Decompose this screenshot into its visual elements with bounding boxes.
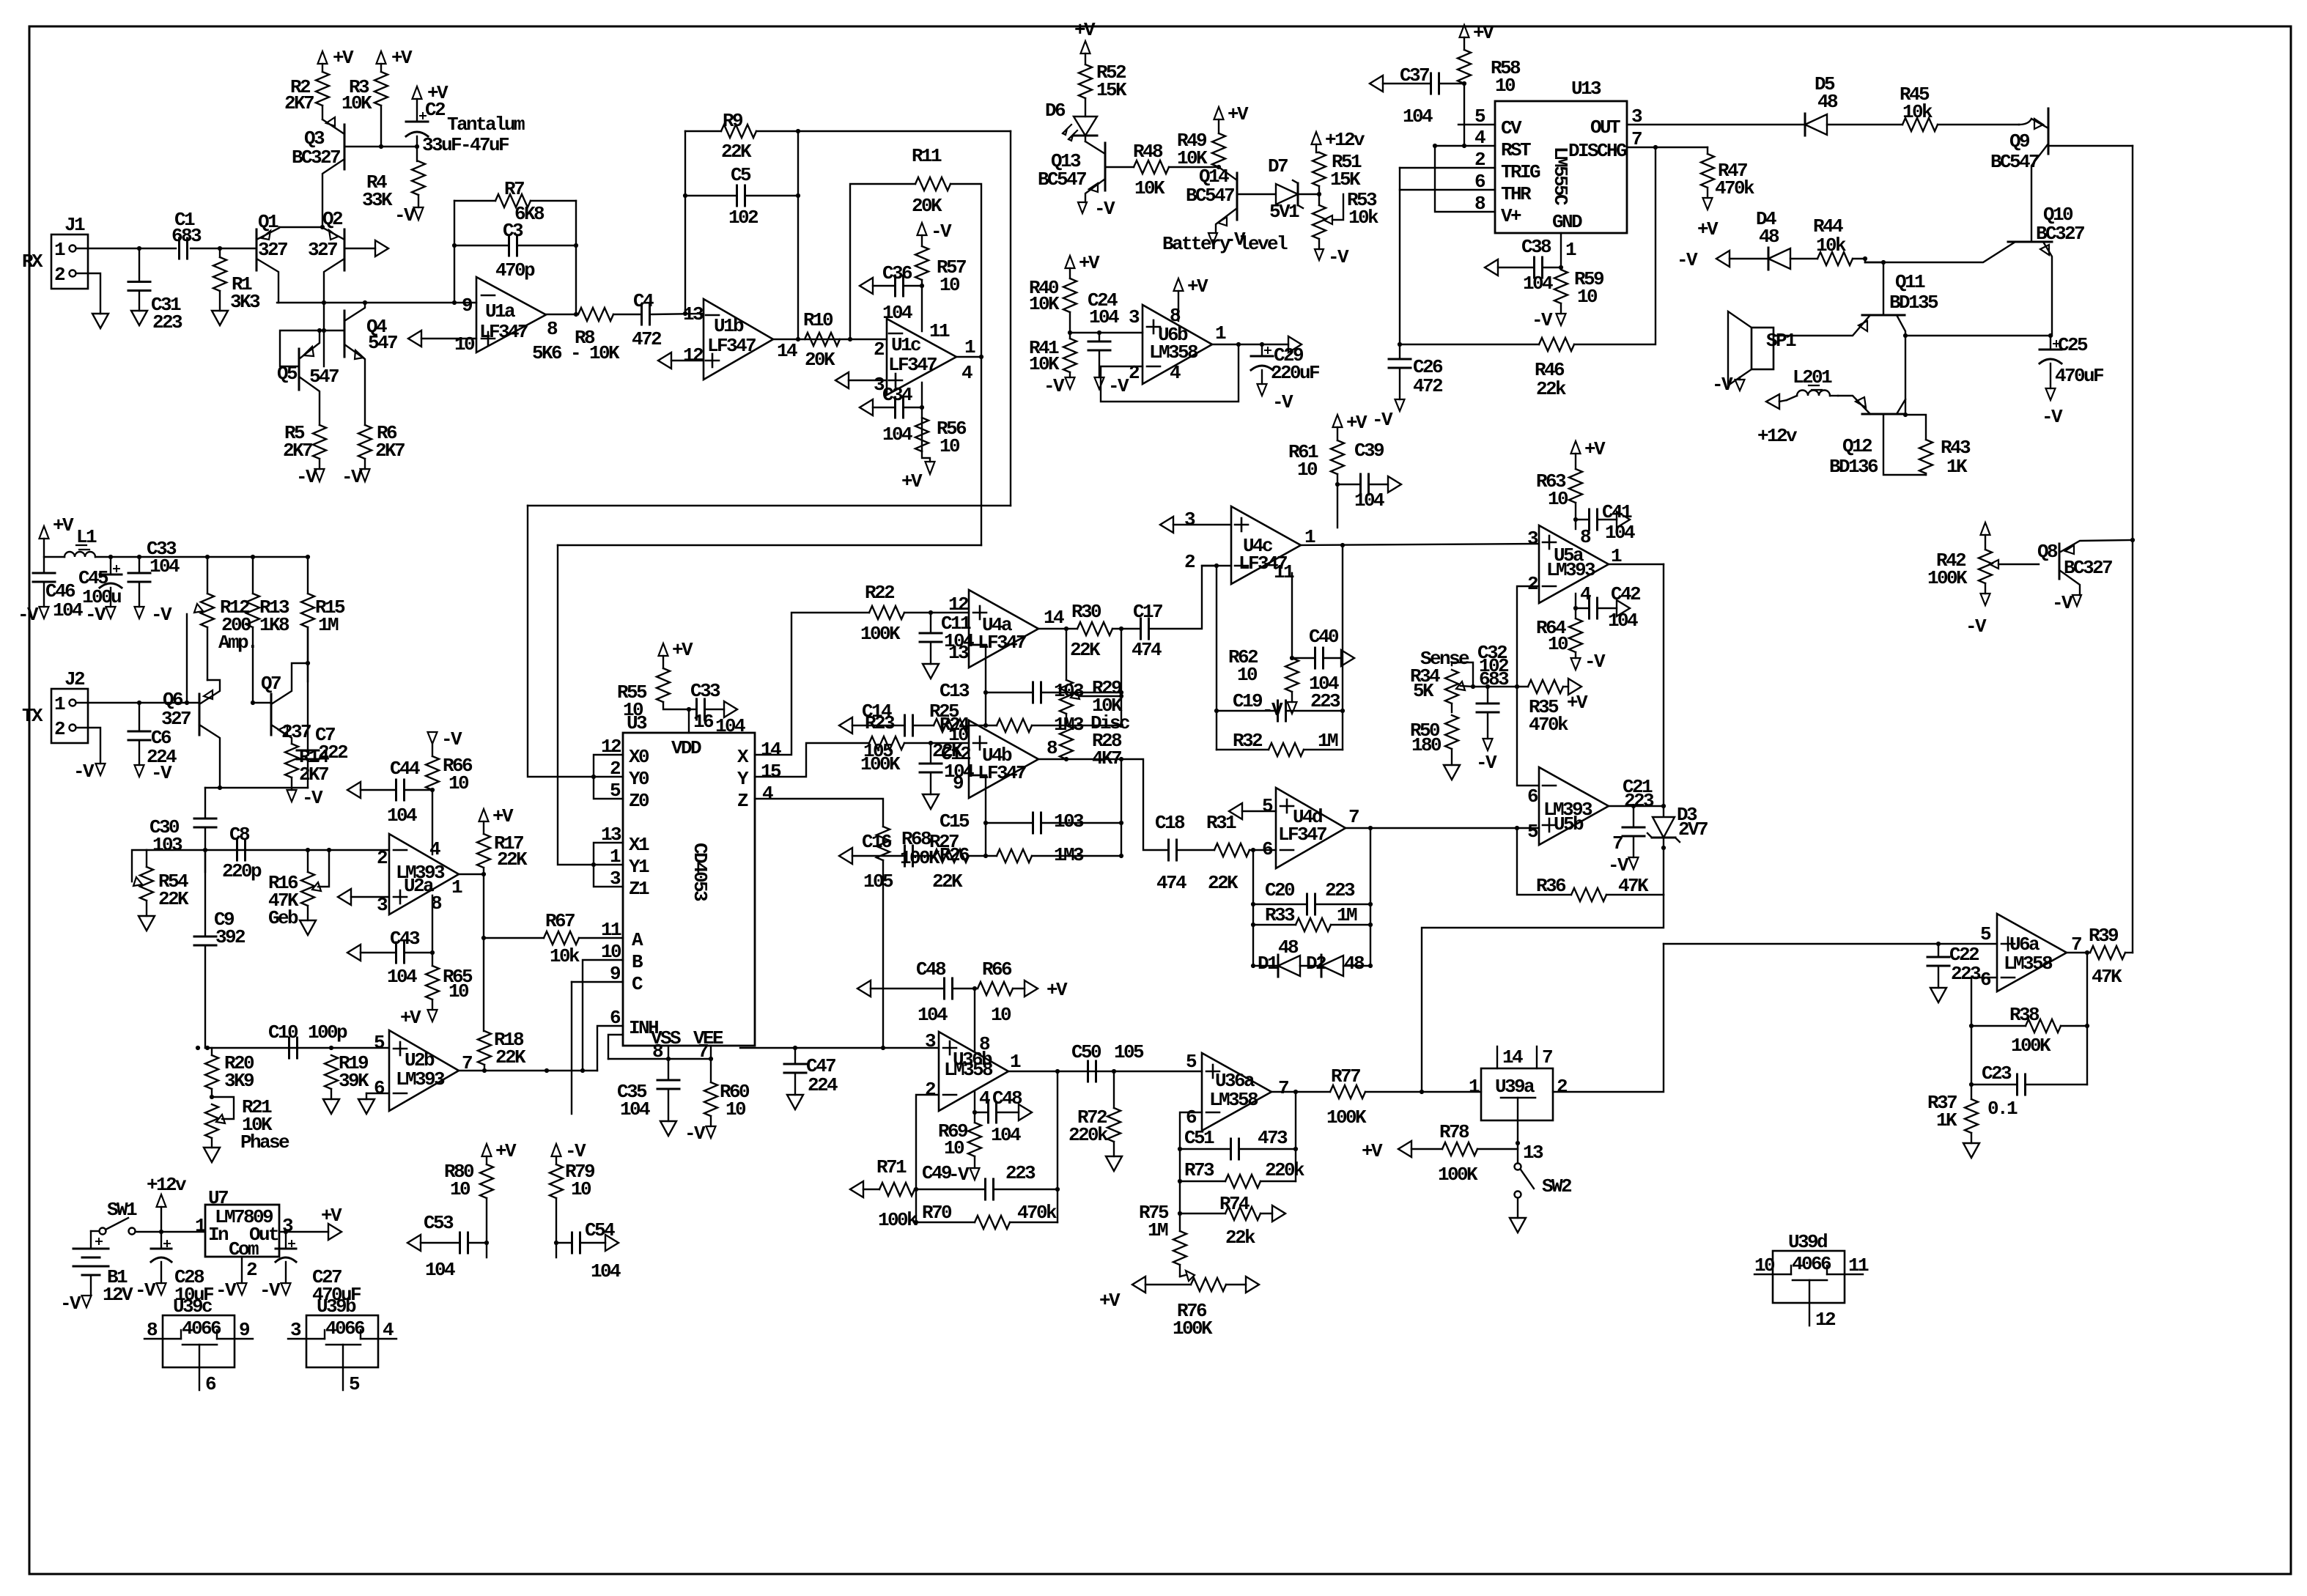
resistor R74	[1180, 1213, 1225, 1214]
svg-text:10: 10	[726, 1098, 746, 1120]
resistor R43	[1905, 415, 1926, 440]
wire U2b out	[459, 1070, 597, 1071]
zener diode D3 (2V7)	[1653, 817, 1675, 838]
capacitor C51 feedback	[1180, 1148, 1229, 1150]
op-amp U2a (LM393)	[389, 834, 459, 915]
-V power	[706, 1126, 716, 1138]
capacitor C23 feedback	[1971, 1084, 2015, 1085]
svg-text:100K: 100K	[860, 753, 901, 775]
wire down to Q12	[1905, 336, 1906, 415]
ground	[323, 1099, 339, 1114]
svg-text:+V: +V	[672, 639, 693, 661]
svg-text:+V: +V	[1079, 252, 1100, 274]
wire J2 pin2 gnd	[76, 728, 100, 764]
svg-text:10k: 10k	[550, 945, 580, 967]
wire U6b out	[1212, 344, 1288, 345]
wire TRIG/THR vertical to C26	[1399, 168, 1400, 344]
pins 14 7 stubs	[1496, 1046, 1498, 1068]
-V power	[1066, 377, 1075, 389]
svg-text:104: 104	[425, 1259, 455, 1281]
svg-text:104: 104	[620, 1098, 650, 1120]
svg-text:OUT: OUT	[1590, 117, 1620, 138]
svg-text:R67: R67	[545, 910, 575, 932]
svg-text:R39: R39	[2089, 925, 2119, 947]
svg-text:22k: 22k	[1536, 378, 1566, 400]
svg-text:100K: 100K	[860, 623, 901, 645]
resistor R35	[1528, 680, 1563, 693]
-V power	[281, 1283, 291, 1295]
ground	[139, 916, 155, 931]
svg-text:104: 104	[882, 302, 912, 324]
svg-text:220uF: 220uF	[1271, 362, 1320, 384]
svg-text:C48: C48	[992, 1087, 1022, 1109]
resistor R77	[1330, 1085, 1365, 1098]
svg-text:11: 11	[929, 320, 950, 342]
wire DISCHG pin7	[1627, 147, 1708, 148]
svg-text:100K: 100K	[1927, 567, 1968, 589]
svg-text:547: 547	[368, 332, 397, 354]
resistor R45	[1902, 118, 1938, 131]
svg-text:4: 4	[429, 838, 440, 860]
node R13 to Q7 base	[251, 701, 255, 705]
svg-text:4066: 4066	[325, 1318, 365, 1340]
resistor R52	[1085, 53, 1086, 64]
resistor R40	[1069, 268, 1071, 278]
svg-text:48: 48	[1344, 953, 1365, 975]
wire U39a out	[1553, 944, 1664, 1092]
svg-text:+12v: +12v	[1325, 129, 1365, 151]
svg-text:104: 104	[882, 424, 912, 446]
regulator U7 LM7809 box	[205, 1205, 279, 1257]
wire R22 to pin12	[904, 612, 969, 613]
svg-text:+V: +V	[1567, 692, 1588, 714]
U1c pin4 lower rail	[921, 383, 923, 451]
svg-text:L201: L201	[1793, 366, 1832, 388]
svg-text:10K: 10K	[1134, 177, 1165, 199]
svg-text:+V: +V	[1074, 19, 1096, 41]
pin16 VDD	[688, 709, 690, 733]
svg-text:12V: 12V	[103, 1284, 133, 1306]
svg-text:104: 104	[1608, 610, 1638, 632]
wire pin6 loop	[1971, 978, 1997, 1085]
wire top rail ext	[207, 556, 308, 558]
svg-text:3: 3	[1527, 528, 1538, 550]
svg-text:220p: 220p	[222, 860, 262, 882]
resistor R24 feedback	[986, 725, 997, 726]
svg-text:15K: 15K	[1330, 169, 1361, 191]
svg-text:2: 2	[1129, 362, 1140, 384]
svg-text:327: 327	[258, 239, 287, 261]
wire GND pin1	[1560, 233, 1562, 267]
resistor R79	[555, 1156, 557, 1164]
wire U6a out	[2067, 952, 2090, 953]
svg-text:474: 474	[1156, 872, 1186, 894]
svg-text:4K7: 4K7	[1092, 747, 1121, 769]
resistor R32 feedback	[1217, 749, 1269, 750]
wire INH route	[597, 1026, 623, 1071]
op-amp U1b (LF347)	[704, 299, 773, 380]
input arrow pin3	[338, 889, 351, 905]
-V power	[82, 1296, 92, 1307]
svg-text:3K9: 3K9	[224, 1070, 254, 1092]
svg-text:14: 14	[777, 340, 797, 362]
svg-text:7: 7	[1348, 806, 1359, 828]
resistor R50 (180)	[1445, 715, 1458, 749]
-V power	[106, 607, 116, 618]
wire U5b out	[1609, 805, 1664, 807]
svg-text:22K: 22K	[497, 849, 528, 871]
capacitor C49	[916, 1189, 983, 1190]
capacitor C4	[613, 314, 640, 315]
capacitor C21	[1633, 806, 1634, 827]
wire U36a out	[1271, 1091, 1330, 1093]
svg-text:470k: 470k	[1017, 1202, 1057, 1224]
svg-text:224: 224	[808, 1074, 838, 1096]
svg-text:20K: 20K	[912, 195, 942, 217]
capacitor C35	[668, 1059, 669, 1080]
pot R29 (10K) Disc	[1066, 629, 1067, 680]
svg-text:-V: -V	[1476, 752, 1497, 774]
svg-text:2V7: 2V7	[1678, 819, 1708, 841]
capacitor C33b	[689, 709, 695, 710]
svg-text:473: 473	[1258, 1127, 1288, 1149]
svg-text:6: 6	[1527, 786, 1538, 808]
svg-text:C17: C17	[1133, 601, 1162, 623]
svg-text:104: 104	[387, 966, 417, 988]
-V power	[1483, 739, 1493, 750]
svg-text:12: 12	[948, 594, 969, 616]
svg-text:104: 104	[991, 1124, 1021, 1146]
+12v power	[157, 1194, 166, 1207]
svg-text:BC547: BC547	[1186, 185, 1234, 207]
ground	[204, 1148, 220, 1162]
svg-text:2: 2	[1184, 551, 1195, 573]
input arrow pin3 U4c	[1160, 517, 1173, 533]
svg-text:103: 103	[1054, 810, 1084, 832]
input arrow pin3	[835, 372, 849, 388]
resistor R41	[1063, 339, 1077, 372]
svg-text:LM393: LM393	[1546, 559, 1595, 581]
svg-text:48: 48	[1759, 226, 1779, 248]
op-amp U6a (LM358)	[1997, 914, 2067, 991]
-V power	[96, 764, 106, 775]
resistor R17	[483, 821, 484, 834]
svg-text:103: 103	[152, 834, 182, 856]
wire C48 node down to pin8	[974, 989, 975, 1052]
svg-text:C16: C16	[862, 831, 892, 853]
wire pin4 down C48b	[974, 1092, 975, 1123]
svg-text:105: 105	[863, 871, 893, 893]
capacitor C17	[1140, 618, 1142, 639]
svg-text:BC327: BC327	[292, 147, 340, 169]
svg-text:6: 6	[1186, 1107, 1197, 1128]
svg-text:Phase: Phase	[240, 1131, 289, 1153]
svg-text:14: 14	[1044, 607, 1064, 629]
resistor R66	[432, 744, 433, 756]
wire Out	[279, 1231, 328, 1233]
svg-text:5: 5	[1527, 821, 1538, 843]
ground	[131, 311, 147, 325]
svg-text:+V: +V	[400, 1007, 421, 1029]
+V power R63	[1571, 441, 1581, 454]
svg-text:THR: THR	[1501, 183, 1532, 205]
svg-text:R9: R9	[723, 110, 743, 132]
svg-text:8: 8	[1047, 737, 1057, 759]
capacitor C24	[1099, 333, 1100, 341]
svg-text:-V: -V	[215, 1279, 237, 1301]
svg-text:C10: C10	[268, 1021, 298, 1043]
resistor R65	[432, 895, 433, 966]
capacitor C15 feedback	[986, 822, 1031, 824]
svg-text:U39d: U39d	[1788, 1231, 1827, 1253]
svg-text:10K: 10K	[1029, 293, 1060, 315]
ground	[1930, 988, 1946, 1002]
resistor R30	[1077, 622, 1112, 635]
svg-text:C13: C13	[940, 680, 970, 702]
capacitor C46	[43, 557, 45, 573]
svg-text:D2: D2	[1306, 953, 1326, 975]
svg-text:223: 223	[1005, 1162, 1036, 1184]
diode D4 (48)	[1768, 248, 1790, 269]
wire R67 node	[483, 874, 484, 938]
wire long vertical to Y1	[558, 545, 594, 865]
svg-text:R36: R36	[1536, 875, 1566, 897]
resistor R3	[380, 64, 382, 72]
wire Com pin	[241, 1257, 243, 1283]
capacitor C20 feedback	[1253, 904, 1305, 905]
transistor Q14 (BC547)	[1236, 173, 1239, 220]
resistor R56	[915, 418, 929, 451]
wire Q13 base	[1105, 166, 1134, 168]
svg-text:LF347: LF347	[888, 354, 937, 376]
op-amp U2b (LM393)	[389, 1030, 459, 1111]
svg-text:9: 9	[239, 1319, 250, 1341]
+V power for R2	[318, 51, 328, 64]
capacitor C9	[204, 850, 206, 936]
svg-text:5: 5	[349, 1373, 360, 1395]
resistor R28 (4K7)	[1060, 725, 1073, 759]
ground	[660, 1121, 676, 1136]
svg-text:10: 10	[1754, 1255, 1775, 1277]
capacitor C18	[1121, 759, 1167, 850]
-V power	[135, 765, 144, 777]
+V power R40	[1066, 256, 1075, 268]
svg-text:10: 10	[1297, 459, 1318, 481]
svg-text:1: 1	[54, 239, 65, 261]
capacitor C12	[930, 743, 931, 764]
svg-text:104: 104	[715, 715, 745, 737]
svg-text:4066: 4066	[1792, 1253, 1831, 1275]
svg-text:3K3: 3K3	[230, 291, 260, 313]
wire into pin9 node	[969, 855, 986, 857]
U1b output node vertical	[797, 131, 799, 339]
svg-text:4: 4	[1170, 362, 1181, 384]
resistor R80	[486, 1156, 487, 1164]
svg-text:C19: C19	[1233, 690, 1263, 712]
arrow out	[375, 240, 388, 256]
svg-text:BD136: BD136	[1829, 456, 1878, 478]
+V power R52	[1081, 41, 1090, 53]
svg-text:Amp.: Amp.	[218, 632, 256, 654]
svg-text:BC327: BC327	[2036, 223, 2084, 245]
-V power	[1078, 202, 1087, 213]
svg-text:C44: C44	[390, 758, 420, 780]
svg-text:8: 8	[1580, 526, 1591, 548]
wire R15 to Q7 collector	[307, 627, 309, 663]
wire pin6 loop	[1180, 1112, 1202, 1213]
zener diode D7 (5V1)	[1276, 184, 1298, 204]
svg-text:10: 10	[991, 1004, 1011, 1026]
resistor R68	[876, 827, 890, 860]
svg-text:104: 104	[1523, 273, 1553, 295]
svg-text:1: 1	[1010, 1051, 1021, 1073]
svg-text:8: 8	[547, 318, 558, 340]
resistor R10	[805, 333, 840, 346]
wire collector rail to U1a pin9	[277, 302, 476, 303]
svg-text:3: 3	[925, 1030, 936, 1052]
transistor Q11 (BD135)	[1862, 314, 1905, 317]
svg-text:VDD: VDD	[671, 737, 701, 759]
svg-text:10: 10	[449, 772, 469, 794]
svg-text:R10: R10	[803, 309, 833, 331]
svg-text:+V: +V	[492, 805, 514, 827]
svg-text:5: 5	[1186, 1051, 1197, 1073]
svg-text:392: 392	[215, 926, 246, 948]
capacitor C16 + resistor R27 input	[839, 848, 852, 864]
svg-text:-V: -V	[1272, 391, 1293, 413]
switch SW2	[1517, 1143, 1518, 1162]
wire long horizontal 2	[558, 544, 981, 546]
-V power	[1315, 249, 1324, 260]
resistor R47	[1707, 147, 1708, 154]
svg-text:180: 180	[1411, 734, 1442, 756]
wire U2a col to U2b out	[483, 938, 484, 1031]
capacitor C28 (10uF)	[160, 1232, 162, 1249]
capacitor C38	[1485, 259, 1498, 276]
wire bottom rail	[220, 787, 308, 788]
svg-text:4066: 4066	[182, 1318, 221, 1340]
svg-text:X1: X1	[629, 834, 649, 856]
wire Y0 pin	[594, 776, 623, 777]
svg-text:222: 222	[318, 742, 348, 764]
wire J1 pin2 to ground	[76, 273, 100, 314]
svg-text:U39b: U39b	[317, 1296, 356, 1318]
svg-text:10k: 10k	[1348, 207, 1378, 229]
svg-text:LM358: LM358	[944, 1059, 993, 1081]
capacitor C31	[139, 248, 140, 281]
capacitor C43	[347, 945, 361, 961]
svg-text:104: 104	[918, 1004, 948, 1026]
svg-text:+V: +V	[321, 1205, 342, 1227]
svg-text:7: 7	[1612, 832, 1623, 854]
pin7 VEE stub	[710, 1046, 712, 1059]
svg-text:100p: 100p	[308, 1021, 347, 1043]
svg-text:5V1: 5V1	[1269, 201, 1299, 223]
svg-text:-V: -V	[931, 221, 952, 243]
svg-text:47K: 47K	[2092, 966, 2122, 988]
svg-text:1: 1	[451, 876, 462, 898]
resistor R70 row	[916, 1222, 975, 1223]
svg-text:22K: 22K	[495, 1046, 526, 1068]
svg-text:-V: -V	[948, 1164, 970, 1186]
resistor R9	[685, 130, 721, 132]
svg-text:2K7: 2K7	[375, 440, 405, 462]
svg-text:6: 6	[610, 1007, 621, 1029]
resistor R62	[1285, 658, 1299, 692]
svg-text:47K: 47K	[1618, 875, 1649, 897]
pot R16 (47K) Geb	[307, 850, 309, 872]
resistor R71 + capacitor C49 row	[850, 1181, 863, 1197]
svg-text:C23: C23	[1982, 1063, 2012, 1085]
transistor Q13 (BC547)	[1104, 143, 1107, 191]
wire out vertical U4b	[1121, 759, 1122, 856]
svg-text:RX: RX	[22, 251, 43, 273]
svg-text:10: 10	[1495, 75, 1516, 97]
pot R12 (200) Amp.	[201, 594, 214, 627]
wire Q3 base to R3/C2	[344, 146, 417, 147]
+V power down	[926, 462, 935, 474]
svg-text:Geb: Geb	[268, 907, 298, 929]
svg-text:+V: +V	[391, 47, 413, 69]
LED D6	[1074, 117, 1097, 136]
transistor Q9 (BC547)	[2048, 108, 2050, 154]
svg-text:22k: 22k	[1225, 1227, 1255, 1249]
svg-text:12: 12	[1815, 1309, 1836, 1331]
-V power	[1288, 702, 1297, 714]
svg-text:102: 102	[728, 207, 758, 229]
wire Q5 base loop	[280, 330, 324, 366]
svg-text:-V: -V	[296, 466, 317, 488]
svg-text:2: 2	[54, 264, 65, 286]
ground	[787, 1095, 803, 1109]
pin8 VSS stub	[668, 1046, 669, 1059]
svg-text:R78: R78	[1439, 1121, 1469, 1143]
svg-text:CD4053: CD4053	[689, 843, 711, 901]
resistor R60	[704, 1082, 717, 1116]
wire Q11 collector to C25	[1905, 335, 2051, 336]
svg-text:Z1: Z1	[629, 878, 649, 900]
svg-text:R25: R25	[929, 701, 959, 723]
svg-text:2K7: 2K7	[299, 764, 328, 786]
svg-text:10: 10	[1548, 633, 1568, 655]
svg-text:+12v: +12v	[147, 1174, 187, 1196]
svg-text:2: 2	[925, 1079, 936, 1101]
resistor R75	[1179, 1213, 1181, 1231]
svg-text:TRIG: TRIG	[1501, 161, 1540, 183]
svg-text:104: 104	[1605, 522, 1635, 544]
capacitor C11	[930, 613, 931, 633]
wire C9 row y1430	[205, 1047, 388, 1049]
wire VSS/VEE rail	[608, 1058, 711, 1060]
capacitor C47	[794, 1048, 796, 1064]
svg-text:-V: -V	[60, 1293, 81, 1315]
svg-text:3: 3	[1184, 509, 1195, 531]
capacitor C14 + resistor R25 input	[839, 717, 852, 734]
svg-text:5K6 - 10K: 5K6 - 10K	[532, 342, 620, 364]
svg-text:-V: -V	[2052, 592, 2073, 614]
svg-text:11: 11	[601, 919, 621, 941]
svg-text:-V: -V	[565, 1140, 586, 1162]
resistor R78	[1398, 1141, 1411, 1157]
-V power R57	[918, 223, 927, 235]
svg-text:C20: C20	[1265, 879, 1295, 901]
wire OUT pin3	[1627, 124, 1805, 125]
svg-text:2: 2	[1527, 573, 1538, 595]
svg-text:0.1: 0.1	[1987, 1098, 2018, 1120]
op-amp U4a (LF347)	[969, 590, 1038, 668]
svg-text:104: 104	[1089, 306, 1119, 328]
capacitor C19 feedback	[1217, 710, 1276, 712]
